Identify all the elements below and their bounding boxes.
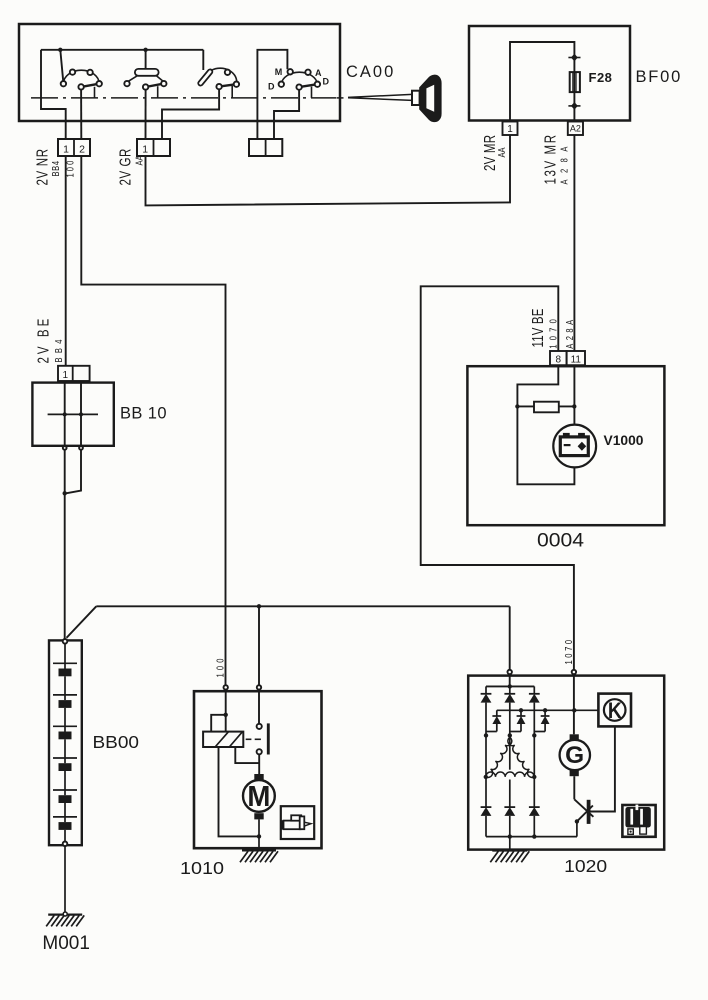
svg-text:A: A: [315, 68, 322, 78]
svg-text:D: D: [268, 82, 275, 92]
svg-text:BB 10: BB 10: [120, 405, 167, 423]
svg-text:2V GR: 2V GR: [116, 148, 134, 185]
svg-text:A28A: A28A: [558, 140, 569, 184]
svg-text:11: 11: [571, 354, 582, 365]
svg-text:A2: A2: [570, 124, 581, 134]
svg-text:1070: 1070: [547, 315, 558, 349]
svg-text:V1000: V1000: [604, 432, 644, 448]
svg-text:8: 8: [556, 354, 562, 365]
svg-text:2V NR: 2V NR: [33, 148, 51, 185]
svg-text:1010: 1010: [180, 858, 224, 878]
svg-text:11V BE: 11V BE: [528, 308, 546, 347]
svg-text:BF00: BF00: [636, 68, 683, 86]
svg-text:BB00: BB00: [93, 732, 140, 752]
svg-text:1: 1: [63, 144, 69, 156]
svg-text:1020: 1020: [564, 856, 607, 876]
svg-text:BB4: BB4: [50, 160, 61, 176]
svg-text:BB4: BB4: [53, 335, 64, 362]
svg-text:AA: AA: [133, 155, 144, 166]
svg-text:1: 1: [63, 370, 69, 381]
svg-text:2V BE: 2V BE: [34, 316, 52, 364]
svg-text:0004: 0004: [537, 530, 584, 551]
svg-text:CA00: CA00: [346, 63, 395, 81]
svg-text:100: 100: [214, 655, 225, 677]
svg-text:D: D: [323, 77, 330, 87]
svg-text:AA: AA: [496, 147, 507, 158]
svg-text:M001: M001: [42, 933, 90, 954]
svg-text:M: M: [275, 67, 283, 77]
svg-text:2: 2: [79, 144, 85, 156]
svg-text:A28A: A28A: [564, 316, 575, 348]
svg-text:1070: 1070: [563, 637, 574, 664]
svg-text:K: K: [608, 698, 622, 723]
svg-text:13V MR: 13V MR: [541, 133, 559, 184]
svg-text:G: G: [565, 742, 584, 769]
svg-text:1: 1: [142, 144, 148, 156]
svg-text:1: 1: [507, 124, 513, 135]
svg-text:M: M: [247, 781, 270, 813]
svg-text:F28: F28: [589, 70, 613, 85]
